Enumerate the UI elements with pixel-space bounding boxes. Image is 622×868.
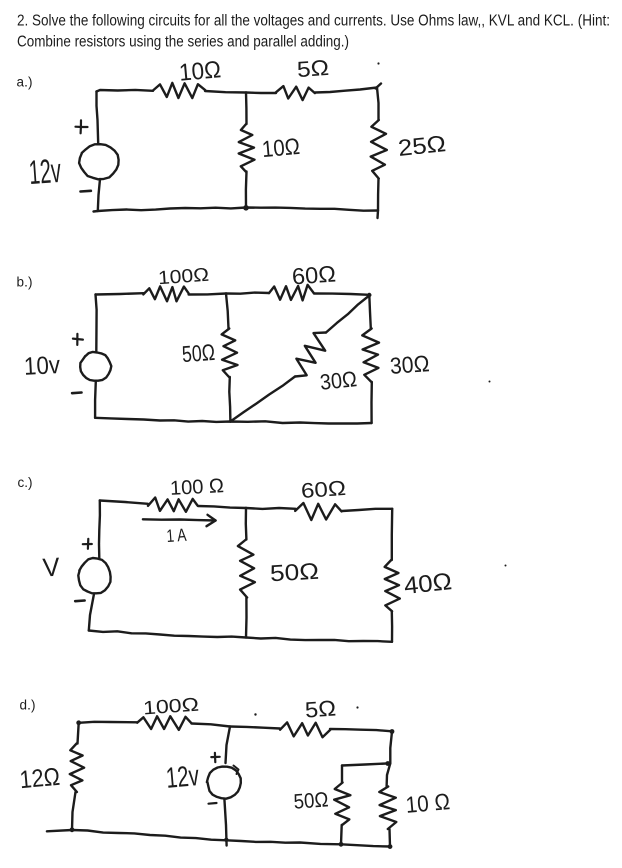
speck near c right (505, 565, 507, 567)
junction dot top-left (d) (76, 720, 81, 725)
wire top-middle (c) (198, 506, 246, 508)
svg-text:12v: 12v (28, 152, 63, 192)
wire top-middle (d) (192, 724, 231, 727)
svg-text:12Ω: 12Ω (18, 763, 61, 794)
junction dot top-right (d) (390, 729, 395, 734)
resistor R1 100 ohm top-left (b) (143, 286, 188, 301)
svg-text:50Ω: 50Ω (269, 558, 319, 587)
wire top node to R2 (c) (246, 507, 296, 510)
svg-text:60Ω: 60Ω (300, 477, 346, 503)
V3 minus sign (c) (75, 599, 84, 602)
resistor R5 30 ohm diagonal (b) (295, 333, 326, 377)
junction dot bottom-right (d) (388, 844, 393, 849)
junction dot top-right (b) (367, 293, 371, 297)
resistor R3 10 ohm middle (a) (239, 124, 255, 172)
wire top-right (b) (314, 294, 369, 295)
wire top-middle (b) (189, 294, 226, 295)
resistor R3 50 ohm middle (b) (222, 329, 238, 378)
svg-text:100Ω: 100Ω (142, 695, 199, 720)
wire middle upper (b) (226, 294, 229, 329)
wire diagonal lower (b) (230, 377, 295, 422)
svg-text:60Ω: 60Ω (291, 260, 337, 289)
wire right lower (d) (388, 829, 391, 847)
V1 plus sign (a) (76, 126, 88, 129)
svg-text:100 Ω: 100 Ω (169, 475, 224, 500)
svg-text:40Ω: 40Ω (403, 568, 454, 600)
svg-text:5Ω: 5Ω (304, 695, 337, 722)
wire top-right (c) (342, 509, 392, 511)
svg-text:25Ω: 25Ω (397, 130, 447, 161)
wire middle lower (b) (229, 377, 230, 422)
wire top-right (d) (330, 729, 392, 731)
wire middle upper (a) (245, 93, 248, 125)
resistor R3 50 ohm middle (c) (238, 540, 255, 598)
voltage source V4 12V (d) (207, 767, 241, 799)
svg-text:10v: 10v (23, 351, 61, 381)
svg-text:Combine resistors using the se: Combine resistors using the series and p… (17, 34, 349, 51)
resistor R1 10 ohm top-left (a) (153, 83, 206, 98)
speck near d top (254, 713, 256, 715)
wire 50 ohm branch upper (d) (341, 766, 343, 783)
junction dot bottom-middle (d) (224, 838, 228, 842)
junction dot inner (d) (385, 761, 390, 766)
resistor R3 12 ohm left (d) (70, 744, 84, 793)
wire right lower (c) (391, 611, 394, 642)
resistor R2 5 ohm top-right (d) (280, 722, 330, 737)
wire diagonal upper (b) (326, 296, 369, 333)
wire inner horizontal (d) (342, 763, 390, 765)
resistor R4 40 ohm right (c) (385, 560, 400, 611)
junction dot bottom-middle (a) (243, 205, 249, 211)
svg-text:50Ω: 50Ω (181, 339, 216, 367)
svg-text:d.): d.) (20, 698, 36, 713)
wire left upper (d) (78, 723, 79, 744)
svg-text:V: V (42, 551, 62, 582)
voltage source V3 (c) (78, 558, 110, 593)
wire top-left (c) (100, 501, 148, 504)
resistor R1 100 ohm top-left (d) (137, 716, 191, 730)
wire top-middle (a) (205, 91, 246, 93)
wire top node to R2 (b) (226, 293, 269, 294)
V4 pen loop (d) (234, 766, 239, 775)
wire left upper (a) (97, 92, 99, 144)
speck near d 5 ohm (356, 706, 358, 708)
wire top-left (b) (96, 293, 144, 294)
V4 minus sign (d) (209, 802, 217, 805)
wire top-left (a) (97, 90, 154, 92)
wire left lower (a) (98, 179, 100, 211)
wire middle lower (a) (245, 172, 248, 208)
wire left lower (b) (94, 381, 97, 418)
svg-text:5Ω: 5Ω (296, 55, 330, 82)
wire middle branch upper (d) (226, 727, 231, 764)
resistor R4 25 ohm right (a) (371, 120, 387, 179)
wire right upper (c) (391, 509, 394, 560)
wire 50 ohm branch lower (d) (340, 825, 343, 844)
wire middle lower (c) (245, 598, 248, 638)
wire bottom (d) (47, 830, 390, 847)
svg-text:10 Ω: 10 Ω (405, 788, 451, 818)
wire bottom (a) (94, 208, 379, 212)
wire left upper (c) (98, 501, 101, 559)
current arrow 1A (c) (143, 519, 216, 520)
V3 plus sign (c) (83, 543, 92, 545)
V2 minus sign (b) (72, 391, 81, 394)
resistor R2 60 ohm top-right (b) (269, 285, 314, 301)
resistor R4 30 ohm right (b) (362, 329, 379, 383)
wire left lower (c) (89, 594, 94, 631)
wire right upper (d) (390, 732, 392, 764)
speck near b bottom-right (489, 381, 491, 383)
voltage source V2 (b) (80, 352, 111, 381)
wire left lower (d) (72, 792, 76, 830)
wire top node to R2 (a) (246, 91, 276, 94)
svg-text:30Ω: 30Ω (319, 366, 358, 395)
resistor R2 60 ohm top (c) (295, 503, 341, 520)
resistor R2 5 ohm top-right (a) (276, 86, 315, 100)
svg-text:2. Solve the following circui: 2. Solve the following circuits for all … (17, 13, 610, 30)
svg-text:b.): b.) (17, 275, 33, 290)
svg-text:10Ω: 10Ω (178, 56, 222, 87)
wire right upper (b) (369, 295, 371, 329)
wire right upper (a) (377, 88, 379, 121)
voltage source V1 (a) (79, 144, 119, 179)
junction dot bottom 50ohm (d) (339, 842, 344, 847)
svg-text:12v: 12v (165, 760, 201, 795)
V2 plus sign (b) (73, 339, 83, 340)
junction dot bottom-left (d) (70, 827, 75, 832)
svg-text:100Ω: 100Ω (157, 265, 209, 290)
svg-text:30Ω: 30Ω (389, 350, 430, 379)
wire bottom (c) (89, 631, 392, 642)
wire top-right (a) (315, 88, 377, 93)
svg-text:1 A: 1 A (166, 525, 187, 546)
wire right middle (d) (387, 763, 391, 786)
wire bottom (b) (95, 418, 372, 424)
wire middle branch lower (d) (224, 799, 226, 846)
svg-text:c.): c.) (18, 475, 33, 490)
resistor R1 100 ohm top (c) (148, 498, 198, 512)
V1 minus sign (a) (81, 190, 91, 193)
wire top-left (d) (79, 722, 137, 723)
svg-text:a.): a.) (17, 75, 33, 90)
resistor R4 50 ohm (d) (334, 783, 350, 826)
svg-text:10Ω: 10Ω (261, 133, 301, 162)
wire left upper (b) (96, 295, 97, 353)
wire middle upper (c) (245, 508, 248, 540)
speck near a top-right (377, 62, 379, 64)
svg-text:50Ω: 50Ω (293, 788, 329, 813)
wire top node to R2 (d) (230, 727, 280, 729)
wire right lower (b) (370, 382, 373, 423)
resistor R5 10 ohm right (d) (379, 787, 396, 830)
wire right lower (a) (378, 179, 379, 219)
V4 plus sign (d) (211, 756, 219, 758)
